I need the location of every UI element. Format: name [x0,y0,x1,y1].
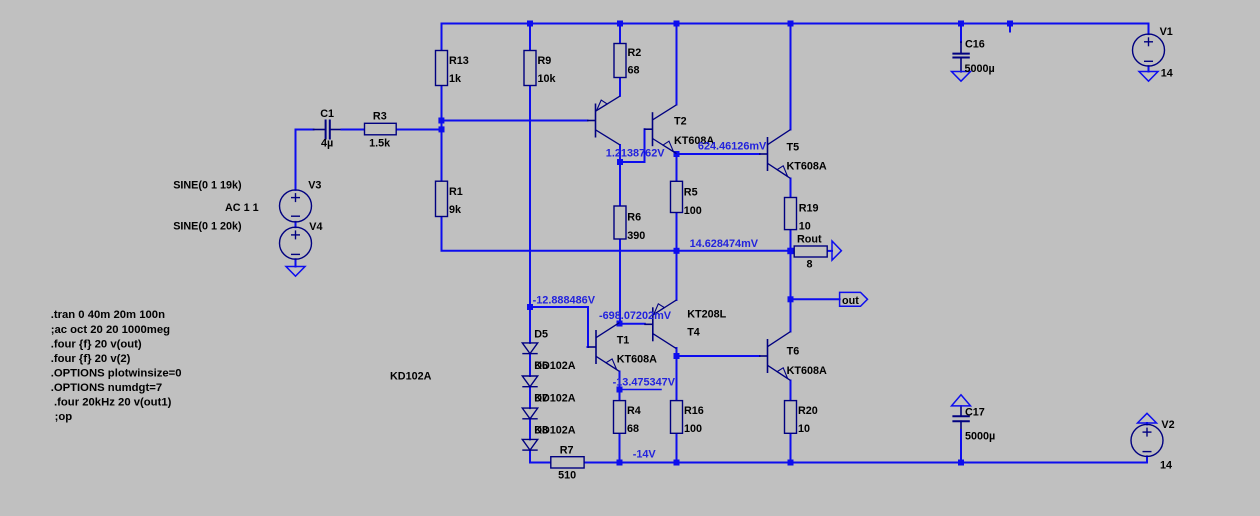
junction node -13.47V [617,387,623,393]
svg-text:1.5k: 1.5k [369,137,391,149]
svg-text:R20: R20 [798,405,818,417]
wire R16 bottom lead [676,433,678,462]
svg-text:5000µ: 5000µ [965,431,995,443]
wire rail to T4 emitter [676,251,678,300]
svg-text:D7: D7 [534,392,548,404]
wire Q1 collector drop [619,145,621,162]
junction bottom rail R16 [674,460,680,466]
svg-text:R4: R4 [627,405,641,417]
junction bottom rail C17 [958,460,964,466]
wire T2 collector column [676,24,678,105]
svg-text:D5: D5 [534,328,548,340]
svg-text:390: 390 [627,230,645,242]
svg-text:T5: T5 [787,142,800,154]
wire R5 top lead [676,154,678,181]
voltage source V3 [280,190,312,222]
junction input node lower [439,126,445,132]
wire R19 bottom lead [790,230,792,251]
wire stub node [1009,24,1011,32]
svg-text:R6: R6 [627,212,641,224]
svg-text:V3: V3 [308,179,321,191]
svg-text:C17: C17 [965,407,985,419]
wire R4 bottom lead [619,433,621,462]
svg-text:Rout: Rout [797,234,822,246]
wire node to T5 base [677,153,760,155]
wire diode chain segment 1 [529,307,531,343]
svg-text:14.628474mV: 14.628474mV [690,238,759,250]
wire R4 top lead [619,390,621,401]
wire R3 to input node [396,129,441,131]
junction top rail C16 [958,21,964,27]
svg-text:5000µ: 5000µ [965,63,995,75]
svg-text:R1: R1 [449,186,463,198]
wire out column [790,251,792,332]
junction node -698mV [617,321,623,327]
wire R9 bottom long [529,86,531,308]
svg-text:T6: T6 [787,346,800,358]
ground below C16 [952,72,971,82]
wire T4 collector to R16 [676,348,678,401]
wire V1 bottom lead [1148,66,1150,71]
svg-text:R9: R9 [538,55,552,67]
svg-text:R7: R7 [560,444,574,456]
junction node -12.88V [527,304,533,310]
junction bottom rail R4 [617,460,623,466]
svg-text:;op: ;op [55,411,73,423]
svg-text:.four {f} 20 v(2): .four {f} 20 v(2) [51,353,131,365]
svg-text:14: 14 [1161,68,1173,80]
transistor T4 pnp [644,300,676,349]
svg-text:T1: T1 [617,334,630,346]
svg-text:.tran 0 40m 20m 100n: .tran 0 40m 20m 100n [51,309,165,321]
svg-text:-13.475347V: -13.475347V [613,377,676,389]
svg-text:SINE(0 1 19k): SINE(0 1 19k) [173,180,242,192]
wire node A to T1 base [530,307,588,347]
junction T6 base node [674,353,680,359]
svg-text:4µ: 4µ [321,137,333,149]
svg-text:R16: R16 [684,405,704,417]
wire bottom rail [530,456,1147,462]
wire R1 top lead [441,130,443,182]
resistor Rout [794,246,827,257]
svg-text:100: 100 [684,205,702,217]
svg-text:.four 20kHz 20 v(out1): .four 20kHz 20 v(out1) [54,397,172,409]
svg-text:.OPTIONS plotwinsize=0: .OPTIONS plotwinsize=0 [51,368,182,380]
wire Rout right lead [827,250,832,252]
diode D7 [522,408,537,419]
wire top rail [442,23,1149,25]
svg-text:10: 10 [799,221,811,233]
wire R2 top lead [619,24,621,44]
svg-text:KT608A: KT608A [787,161,827,173]
port output arrow Rout [832,241,841,260]
svg-text:T4: T4 [687,327,700,339]
svg-text:8: 8 [807,259,813,271]
wire to out flag [791,298,840,300]
wire C1 to R3 [330,129,342,131]
svg-text:SINE(0 1 20k): SINE(0 1 20k) [173,221,242,233]
capacitor C16 [952,54,969,58]
junction bottom rail R20 [788,460,794,466]
wire base wire to Q1 [442,120,588,122]
svg-text:V1: V1 [1160,26,1173,38]
wire node -13V underline [620,389,662,391]
svg-text:-12.888486V: -12.888486V [533,295,596,307]
svg-text:R13: R13 [449,55,469,67]
junction out node [788,296,794,302]
svg-text:KD102A: KD102A [390,371,432,383]
svg-text:R2: R2 [628,47,642,59]
wire V2 top lead [1146,423,1148,424]
svg-text:D6: D6 [534,360,548,372]
transistor T6 npn [759,332,791,381]
wire R13 bottom lead [441,86,443,121]
wire R20 bottom lead [790,433,792,462]
resistor R1 [436,181,448,216]
svg-text:510: 510 [558,470,576,482]
diode D5 [522,343,537,354]
resistor R6 [614,206,626,239]
capacitor C17 [952,416,969,421]
wire T5 collector column [790,24,792,130]
wire T1 emitter drop [619,372,621,390]
resistor R20 [785,401,797,434]
wire C17 ground lead [960,406,962,416]
svg-text:R5: R5 [684,187,698,199]
wire T6 emitter to R20 [790,381,792,401]
junction top rail R9 [527,21,533,27]
svg-text:10k: 10k [538,73,557,85]
resistor R16 [671,401,683,434]
wire T1 collector to T4 base [620,323,645,325]
wire R2 bottom lead [619,77,621,96]
svg-text:1k: 1k [449,73,462,85]
svg-text:68: 68 [627,423,639,435]
junction top rail stub [1007,21,1013,27]
svg-text:;ac oct 20 20 1000meg: ;ac oct 20 20 1000meg [51,324,170,336]
svg-text:-698.07202mV: -698.07202mV [599,310,672,322]
svg-text:R3: R3 [373,110,387,122]
wire R9 top lead [529,24,531,51]
resistor R3 [365,123,397,135]
svg-text:-14V: -14V [633,449,657,461]
svg-text:KT608A: KT608A [617,353,657,365]
ground above V2 flipped [1138,413,1157,423]
wire node link vertical [441,121,443,130]
svg-text:.OPTIONS numdgt=7: .OPTIONS numdgt=7 [51,382,162,394]
junction top rail R2 [617,21,623,27]
wire C16 top lead [960,24,962,43]
junction input node upper [438,118,444,124]
junction node 1.21V [617,159,623,165]
resistor R13 [436,51,448,86]
diode D6 [522,376,537,387]
voltage source V2 [1131,424,1163,456]
voltage source V1 [1133,34,1165,66]
wire V1 top lead [1148,24,1150,35]
wire C17 bottom lead [960,421,962,430]
svg-text:KT208L: KT208L [687,309,726,321]
svg-text:624.46126mV: 624.46126mV [698,141,767,153]
wire diode chain segment 2 [529,354,531,376]
svg-text:C1: C1 [320,108,334,120]
svg-text:100: 100 [684,423,702,435]
svg-text:D8: D8 [534,424,548,436]
svg-text:T2: T2 [674,116,687,128]
junction top rail T2 [674,21,680,27]
svg-text:V4: V4 [309,221,322,233]
wire diode chain segment 3 [529,387,531,408]
svg-text:out: out [842,295,859,307]
transistor Q1 pnp [587,96,620,145]
wire diode chain bottom [529,450,531,462]
svg-text:9k: 9k [449,204,462,216]
transistor T1 npn [588,323,620,372]
junction top rail T5 [788,21,794,27]
wire R5 bottom lead [676,213,678,251]
resistor R9 [524,51,536,86]
wire C16 bottom lead [960,58,962,72]
wire diode chain segment 4 [529,419,531,439]
net flag out [840,292,868,306]
wire V4 ground lead [295,259,297,266]
ground below V4 [286,267,305,277]
wire T2 base jog [620,129,645,162]
svg-text:AC 1 1: AC 1 1 [225,202,259,214]
transistor T2 npn [644,105,677,154]
svg-text:68: 68 [628,65,640,77]
transistor T5 npn [759,130,791,179]
wire T5 emitter to R19 [790,179,792,198]
wire R6 top lead [619,162,621,206]
junction R5 mid rail [674,248,680,254]
svg-text:C16: C16 [965,39,985,51]
voltage source V4 [280,227,312,259]
resistor R7 [551,457,584,468]
svg-text:10: 10 [798,423,810,435]
wire R6 bottom long [619,239,621,324]
ground below V1 [1139,72,1158,82]
junction node 624mV [674,151,680,157]
resistor R5 [671,181,683,212]
svg-text:14: 14 [1160,460,1172,472]
ground above C17 flipped [952,395,971,406]
svg-text:R19: R19 [799,203,819,215]
wire R1 bottom and mid rail [442,217,791,251]
diode D8 [522,439,537,450]
resistor R19 [785,198,797,230]
wire V3-V4 link [295,222,297,227]
wire input left vertical to V3 [296,130,314,190]
junction Rout mid rail [787,248,794,255]
svg-text:.four {f} 20 v(out): .four {f} 20 v(out) [51,339,142,351]
resistor R4 [614,401,626,434]
capacitor C1 [326,120,330,140]
resistor R2 [614,44,626,78]
svg-text:1.2138762V: 1.2138762V [606,148,665,160]
wire R13 top lead [441,24,443,51]
wire T6 base wire [677,355,760,357]
svg-text:V2: V2 [1161,419,1174,431]
svg-text:KT608A: KT608A [787,365,827,377]
